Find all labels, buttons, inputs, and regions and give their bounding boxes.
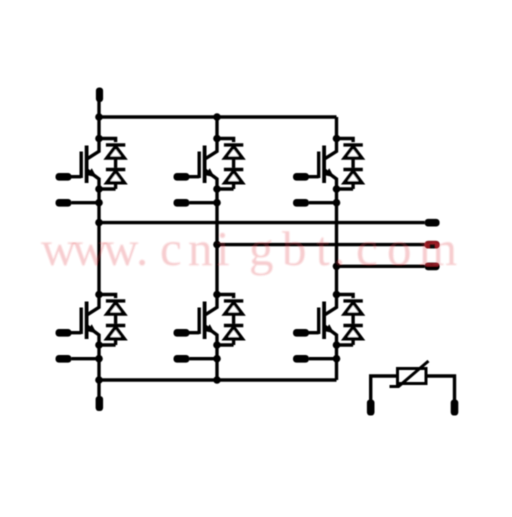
wire: Q1 emitter to aux node [97, 189, 100, 203]
terminal pad: Q2 gate [174, 173, 190, 181]
wire: Q2 auxiliary emitter lead [190, 201, 218, 204]
wire: DC+ rail to Q1 collector [97, 117, 100, 139]
wire: RT1 left lead [371, 376, 398, 400]
wire: D2 anode stub [114, 183, 117, 189]
node: Q3 collector junction [333, 135, 341, 143]
terminal pad: phase U output [425, 219, 440, 227]
wire: Q5 aux node to DC- rail [215, 359, 218, 380]
wire: Q4 gate lead [70, 331, 81, 334]
wire: Q4 emitter to aux node [97, 345, 100, 359]
wire: Q2 emitter lead [205, 168, 217, 189]
wire: D9-D10 link [232, 314, 235, 324]
node: Q5 auxiliary emitter junction [213, 355, 221, 363]
terminal pad: Q4 auxiliary emitter [56, 355, 72, 363]
wire: D1-D2 link [114, 158, 117, 168]
wire: phase U output line [99, 221, 425, 224]
diode D10 [225, 327, 243, 339]
diode D9 cathode bar [224, 299, 243, 302]
wire: DC+ rail corner to Q3 collector [335, 117, 338, 139]
node: Q4 auxiliary emitter junction [95, 355, 103, 363]
wire: Q1 aux node to phase U node [97, 203, 100, 223]
wire: DC- rail corner to Q6 aux node [335, 359, 338, 380]
wire: Q3 auxiliary emitter lead [309, 201, 337, 204]
wire: D4 anode stub [232, 183, 235, 189]
wire: D6 anode stub [351, 183, 354, 189]
diode D2 [107, 171, 125, 183]
wire: RT1 right lead [426, 376, 455, 400]
diode D7 cathode bar [106, 299, 125, 302]
node: phase W midpoint [333, 263, 341, 271]
node: Q3 emitter junction [333, 185, 341, 193]
diode D1 cathode bar [106, 143, 125, 146]
wire: DC- pad feed [97, 380, 100, 397]
node: Q1 collector junction [95, 135, 103, 143]
wire: phase U node to Q4 collector [97, 223, 100, 295]
wire: Q3 emitter lead [324, 168, 336, 189]
terminal pad: Q3 auxiliary emitter [293, 199, 309, 207]
node: DC- rail / phase U leg [95, 376, 103, 384]
terminal pad: phase V output [425, 241, 440, 249]
svg-text:www.cnigbt.com: www.cnigbt.com [41, 221, 457, 276]
wire: Q4 diode bottom connector [99, 343, 116, 346]
diode D3 [225, 147, 243, 159]
node: phase U midpoint [95, 219, 103, 227]
transistor Q4 (IGBT low-side U) [81, 302, 86, 340]
wire: Q2 aux node to phase V node [215, 203, 218, 245]
node: Q6 emitter junction [333, 341, 341, 349]
wire: Q6 collector lead [325, 295, 337, 315]
diode D3 cathode bar [224, 143, 243, 146]
node: Q6 collector junction [333, 291, 341, 299]
node: DC- rail / phase V leg [213, 376, 221, 384]
wire: Q6 auxiliary emitter lead [309, 357, 337, 360]
node: Q4 collector junction [95, 291, 103, 299]
wire: Q5 diode bottom connector [217, 343, 234, 346]
wire: Q1 auxiliary emitter lead [72, 201, 100, 204]
terminal pad: Q5 auxiliary emitter [174, 355, 190, 363]
wire: Q1 diode bottom connector [99, 187, 116, 190]
wire: Q4 diode top connector [99, 295, 116, 299]
terminal pad: RT1 terminal 1 [367, 400, 375, 416]
wire: D12 anode stub [351, 339, 354, 345]
wire: D7-D8 link [114, 314, 117, 324]
thermistor RT1 diagonal stroke [390, 361, 429, 387]
wire: DC+ pad feed [97, 102, 100, 118]
wire: DC- bottom rail [99, 378, 337, 381]
transistor Q2 (IGBT high-side V) [199, 146, 204, 184]
wire: Q2 collector lead [205, 139, 217, 159]
thermistor RT1 body [398, 369, 427, 384]
wire: Q6 gate lead [308, 331, 319, 334]
node: Q4 emitter junction [95, 341, 103, 349]
terminal pad: Q6 gate [293, 329, 309, 337]
wire: D3-D4 link [232, 158, 235, 168]
wire: Q3 emitter to aux node [335, 189, 338, 203]
terminal pad: Q5 gate [174, 329, 190, 337]
wire: Q1 collector lead [87, 139, 99, 159]
diode D9 [225, 303, 243, 315]
wire: Q3 diode bottom connector [337, 187, 354, 190]
terminal pad: phase W output [425, 263, 440, 271]
wire: Q6 emitter lead [324, 324, 336, 345]
wire: Q6 diode top connector [337, 295, 354, 299]
node: phase V midpoint [213, 241, 221, 249]
wire: Q5 collector lead [205, 295, 217, 315]
wire: Q2 diode top connector [217, 139, 234, 143]
wire: DC+ top rail [99, 115, 337, 118]
node: Q5 collector junction [213, 291, 221, 299]
diode D6 [344, 171, 362, 183]
transistor Q3 (IGBT high-side W) [319, 146, 324, 184]
diode D5 [344, 147, 362, 159]
diode D8 cathode bar [106, 324, 125, 327]
diode D5 cathode bar [343, 143, 362, 146]
terminal pad: RT1 terminal 2 [451, 400, 459, 416]
node: Q5 emitter junction [213, 341, 221, 349]
wire: Q5 gate lead [188, 331, 199, 334]
wire: Q1 emitter lead [87, 168, 99, 189]
wire: D11-D12 link [351, 314, 354, 324]
node: Q1 emitter junction [95, 185, 103, 193]
wire: Q5 diode top connector [217, 295, 234, 299]
terminal pad: DC+ (P) [96, 88, 103, 103]
node: Q3 auxiliary emitter junction [333, 199, 341, 207]
wire: Q2 emitter to aux node [215, 189, 218, 203]
wire: Q6 diode bottom connector [337, 343, 354, 346]
wire: Q5 emitter to aux node [215, 345, 218, 359]
terminal pad: Q2 auxiliary emitter [174, 199, 190, 207]
diode D6 cathode bar [343, 168, 362, 171]
wire: Q2 diode bottom connector [217, 187, 234, 190]
node: Q2 emitter junction [213, 185, 221, 193]
transistor Q1 (IGBT high-side U) [81, 146, 86, 184]
wire: Q1 gate lead [70, 175, 81, 178]
wire: Q3 collector lead [325, 139, 337, 159]
diode D7 [107, 303, 125, 315]
wire: phase W output line [337, 265, 425, 268]
diode D12 cathode bar [343, 324, 362, 327]
watermark overlap tint on phase W pad [425, 263, 438, 267]
transistor Q5 (IGBT low-side V) [199, 302, 204, 340]
node: Q6 auxiliary emitter junction [333, 355, 341, 363]
node: DC+ rail / phase V leg [213, 113, 221, 121]
wire: Q5 auxiliary emitter lead [190, 357, 218, 360]
wire: Q3 gate lead [308, 175, 319, 178]
diode D12 [344, 327, 362, 339]
watermark overlap tint on phase V pad [425, 241, 440, 249]
wire: phase V output line [217, 243, 425, 246]
terminal pad: Q1 gate [56, 173, 72, 181]
wire: Q4 collector lead [87, 295, 99, 315]
diode D11 cathode bar [343, 299, 362, 302]
diode D4 cathode bar [224, 168, 243, 171]
node: Q1 auxiliary emitter junction [95, 199, 103, 207]
terminal pad: Q3 gate [293, 173, 309, 181]
watermark text www.cnigbt.com [41, 221, 457, 276]
terminal pad: Q4 gate [56, 329, 72, 337]
node: Q2 collector junction [213, 135, 221, 143]
diode D1 [107, 147, 125, 159]
wire: D5-D6 link [351, 158, 354, 168]
node: DC+ rail / phase U leg [95, 113, 103, 121]
wire: Q4 auxiliary emitter lead [72, 357, 100, 360]
wire: Q4 emitter lead [87, 324, 99, 345]
wire: phase V node to Q5 collector [215, 245, 218, 295]
terminal pad: DC- (N) [96, 396, 104, 411]
node: Q2 auxiliary emitter junction [213, 199, 221, 207]
wire: Q3 diode top connector [337, 139, 354, 143]
wire: Q1 diode top connector [99, 139, 116, 143]
terminal pad: Q1 auxiliary emitter [56, 199, 72, 207]
diode D8 [107, 327, 125, 339]
diode D2 cathode bar [106, 168, 125, 171]
wire: D8 anode stub [114, 339, 117, 345]
diode D11 [344, 303, 362, 315]
wire: Q6 emitter to aux node [335, 345, 338, 359]
wire: D10 anode stub [232, 339, 235, 345]
transistor Q6 (IGBT low-side W) [319, 302, 324, 340]
wire: Q2 gate lead [188, 175, 199, 178]
wire: phase W node to Q6 collector [335, 266, 338, 294]
diode D4 [225, 171, 243, 183]
wire: Q3 aux node to phase W node [335, 203, 338, 267]
wire: Q5 emitter lead [205, 324, 217, 345]
diode D10 cathode bar [224, 324, 243, 327]
wire: DC+ rail to Q2 collector [215, 117, 218, 139]
terminal pad: Q6 auxiliary emitter [293, 355, 309, 363]
wire: Q4 aux node to DC- rail [97, 359, 100, 380]
